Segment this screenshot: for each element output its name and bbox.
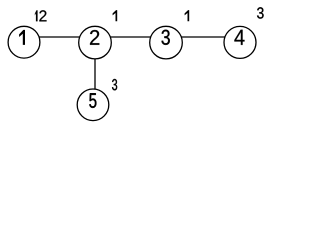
label 1 on node 3 [185,10,190,21]
label 1 on node 2 [113,10,118,21]
node 4 digit [234,30,244,45]
node 1 digit [19,30,25,45]
label 3 on node 5 [112,79,117,90]
node 3 digit [162,30,170,45]
node 2 circle [79,26,112,59]
node 5 circle [77,89,109,121]
node 4 circle [224,26,256,58]
label 12 digit 1 [35,10,38,21]
wire: edge 2-3 [95,36,166,38]
wire: edge 2-5 [94,43,96,105]
node 3 circle [150,26,183,59]
node 5 digit [89,93,96,108]
wire: edge 3-4 [166,36,240,38]
node 2 digit [90,30,99,45]
label 12 digit 2 [39,10,46,21]
label 3 on node 4 [257,7,264,18]
wire: edge 1-2 [24,36,95,38]
node 1 circle [8,26,40,58]
